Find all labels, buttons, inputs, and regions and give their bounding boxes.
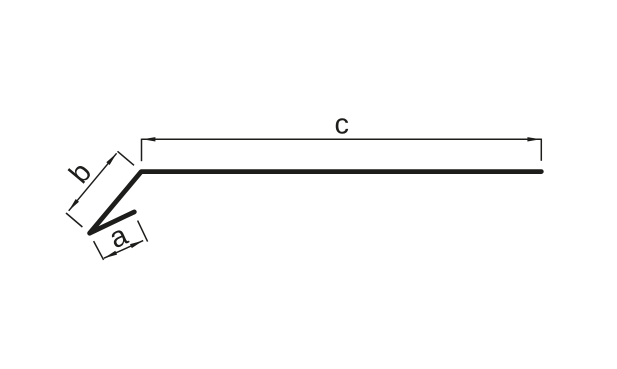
dimension b: upper arrowhead bbox=[106, 153, 116, 165]
profile outline (drip edge sheet-metal section) bbox=[90, 172, 542, 234]
dimension b: lower extension line bbox=[66, 213, 82, 227]
svg-text:c: c bbox=[335, 109, 350, 141]
dimension c: right extension line bbox=[540, 139, 542, 161]
dimension b: dim line bbox=[69, 153, 117, 211]
svg-text:b: b bbox=[63, 157, 98, 190]
dimension c: right arrowhead bbox=[527, 137, 540, 141]
dimension a: right arrowhead bbox=[130, 241, 143, 248]
dimension c: left arrowhead bbox=[142, 137, 155, 141]
dimension c: left extension line bbox=[141, 139, 143, 162]
dimension a: left extension line bbox=[94, 241, 104, 260]
dimension b: upper extension line bbox=[118, 151, 135, 165]
svg-text:a: a bbox=[105, 219, 134, 255]
dimension a: dim line bbox=[104, 241, 143, 259]
dimension b: lower arrowhead bbox=[69, 199, 79, 211]
dimension c: dim line bbox=[142, 138, 542, 140]
dimension a: left arrowhead bbox=[104, 251, 117, 258]
dimension a: right extension line bbox=[138, 221, 148, 242]
